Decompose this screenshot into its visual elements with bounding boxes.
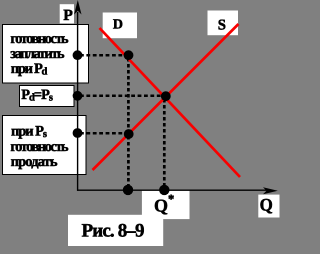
dot on Q axis left [123,185,133,195]
label box Q [258,195,279,218]
dashed line at Pd level [80,54,126,57]
text box "готовность заплатить при Pd" [3,25,89,84]
label box S [208,11,239,36]
dot on P axis at Pd=Ps [73,91,83,101]
svg-text:Рd=Рs: Рd=Рs [21,87,53,104]
dot on P axis at Pd [73,50,83,60]
svg-text:заплатить: заплатить [10,46,65,62]
supply curve S (red) [93,24,239,170]
caption box Рис. 8-9 [68,215,163,246]
dot on D curve [124,50,134,60]
svg-text:P: P [63,7,73,24]
label box D [103,13,137,39]
svg-text:готовность: готовность [10,139,69,155]
dashed line at Ps level [80,132,126,135]
Q axis arrowhead [263,187,278,194]
text box "при Ps готовность продать" [3,116,87,175]
equilibrium dot [161,91,171,101]
P axis (vertical) [77,12,79,191]
vertical dashed line from equilibrium to Q* [163,99,166,187]
dot on P axis at Ps [73,128,83,138]
svg-text:при Рs: при Рs [11,124,47,141]
svg-text:Q: Q [260,195,273,215]
svg-text:Рис. 8–9: Рис. 8–9 [82,221,145,242]
label box P (axis label background) [60,4,74,23]
text box "Pd=Ps" [20,86,75,107]
dot on Q axis at Q* [159,185,169,195]
vertical dashed line through willingness points [127,58,130,187]
demand curve D (red) [100,28,241,177]
dot on S curve [124,129,134,139]
Q axis (horizontal) [77,189,268,191]
P axis arrowhead [74,0,81,15]
svg-text:при Рd: при Рd [11,61,48,78]
label box Q* [142,191,190,219]
svg-text:S: S [218,18,226,34]
svg-text:продать: продать [11,154,58,170]
dashed line at Pd=Ps level [80,95,163,98]
svg-text:готовность: готовность [10,31,69,47]
svg-text:D: D [113,17,123,32]
